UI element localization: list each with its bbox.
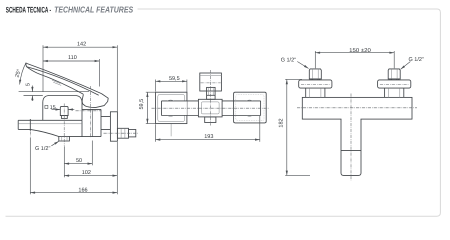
dim 50 [64, 141, 92, 166]
dim 102 [64, 146, 117, 177]
handle bottom edge [38, 73, 83, 94]
step lines to flange [101, 116, 110, 129]
knob skirt [61, 116, 67, 119]
diverter knob [60, 106, 68, 115]
header title [6, 4, 134, 14]
paddle inner top line [200, 75, 222, 77]
center block [198, 99, 222, 117]
paddle centerline [201, 82, 221, 84]
valve block inner edge [91, 109, 93, 136]
wall connection centerline [104, 132, 138, 134]
spout bar bottom [18, 129, 59, 136]
svg-text:G 1/2": G 1/2" [409, 57, 424, 63]
stem inner lines [209, 88, 214, 95]
handle reflection marks [52, 80, 61, 85]
handle second top line [26, 67, 98, 96]
svg-text:SCHEDA TECNICA -: SCHEDA TECNICA - [6, 5, 51, 14]
dim 142 [43, 41, 117, 111]
center block inner [201, 102, 219, 114]
tube top edges [162, 100, 261, 102]
tube end cap [260, 101, 262, 116]
valve block top [82, 108, 101, 110]
handle lever top edge [26, 63, 102, 94]
dim 5 [19, 83, 89, 101]
handle paddle [200, 73, 222, 91]
left union stubs [311, 79, 319, 80]
check valve centerline [29, 131, 31, 136]
svg-text:59,5: 59,5 [139, 99, 145, 110]
spout bar inner line [19, 123, 82, 125]
right union hex nut [388, 69, 400, 79]
label G 1/2 right [401, 57, 424, 69]
dim 59,5 top [156, 76, 187, 100]
body axis centerline [76, 110, 102, 112]
wall nut [117, 128, 128, 138]
column centerline [210, 70, 212, 126]
left union hex nut [309, 69, 321, 79]
outlet fitting [59, 137, 70, 142]
dim 25 deg [14, 63, 26, 85]
tube dents in right block [247, 100, 253, 116]
spout bar left edge [17, 120, 19, 129]
left union flange [299, 80, 332, 88]
body rounded block [43, 96, 82, 121]
right union neck [385, 88, 404, 97]
outlet inner lines [62, 137, 67, 142]
dim square 15 [45, 105, 74, 111]
spout column [341, 119, 361, 175]
right flange centerline [380, 83, 409, 85]
dim 150 +-20 [315, 48, 394, 68]
svg-text:G 1/2": G 1/2" [281, 57, 296, 63]
dim 193 [156, 116, 260, 142]
left block [156, 92, 187, 123]
tube bottom edges [162, 115, 261, 117]
wall stub [129, 130, 136, 137]
svg-text:5: 5 [25, 83, 31, 86]
nut facets [121, 128, 125, 138]
check valve tick [29, 119, 31, 131]
svg-text:110: 110 [68, 55, 77, 61]
dim 182 [279, 79, 310, 175]
left flange centerline [301, 83, 330, 85]
dim 110 [43, 55, 99, 86]
spout bar top [18, 119, 82, 121]
handle stem [207, 87, 216, 99]
right block inner outline [236, 94, 264, 120]
spout column mask [341, 118, 360, 123]
tube left end cap [161, 101, 163, 116]
hanging line below left block [170, 124, 172, 136]
cartridge axis [90, 86, 92, 138]
handle tip edge [25, 63, 28, 67]
svg-text:142: 142 [77, 41, 86, 47]
valve block left edge [81, 120, 83, 136]
label G 1/2 left [281, 57, 309, 68]
svg-text:182: 182 [279, 118, 285, 127]
right union stubs [390, 79, 398, 80]
body bar [302, 97, 412, 119]
svg-text:15: 15 [50, 105, 56, 111]
tube dents near left end [167, 100, 174, 116]
column joint line [341, 149, 361, 151]
valve block bottom [69, 136, 101, 138]
dim 59,5 left [139, 92, 155, 123]
knob/outlet centerline [63, 104, 65, 146]
right block [234, 92, 267, 123]
svg-text:TECHNICAL FEATURES: TECHNICAL FEATURES [54, 4, 133, 14]
left block inner outline [158, 94, 185, 121]
handle wedge end [82, 94, 108, 108]
bar centerline [297, 107, 417, 109]
left union neck [306, 88, 325, 97]
wall flange [110, 112, 117, 141]
tube centerline [152, 107, 269, 109]
handle under-tip curve [26, 67, 37, 74]
svg-text:G 1/2": G 1/2" [35, 146, 50, 152]
label G 1/2 left view [35, 141, 59, 152]
valve block right edge [100, 109, 102, 136]
right union flange [378, 80, 411, 88]
column centerline [350, 94, 352, 181]
tube mask over left block [162, 101, 187, 115]
dim 166 [30, 137, 117, 194]
bottom tab [205, 117, 216, 123]
